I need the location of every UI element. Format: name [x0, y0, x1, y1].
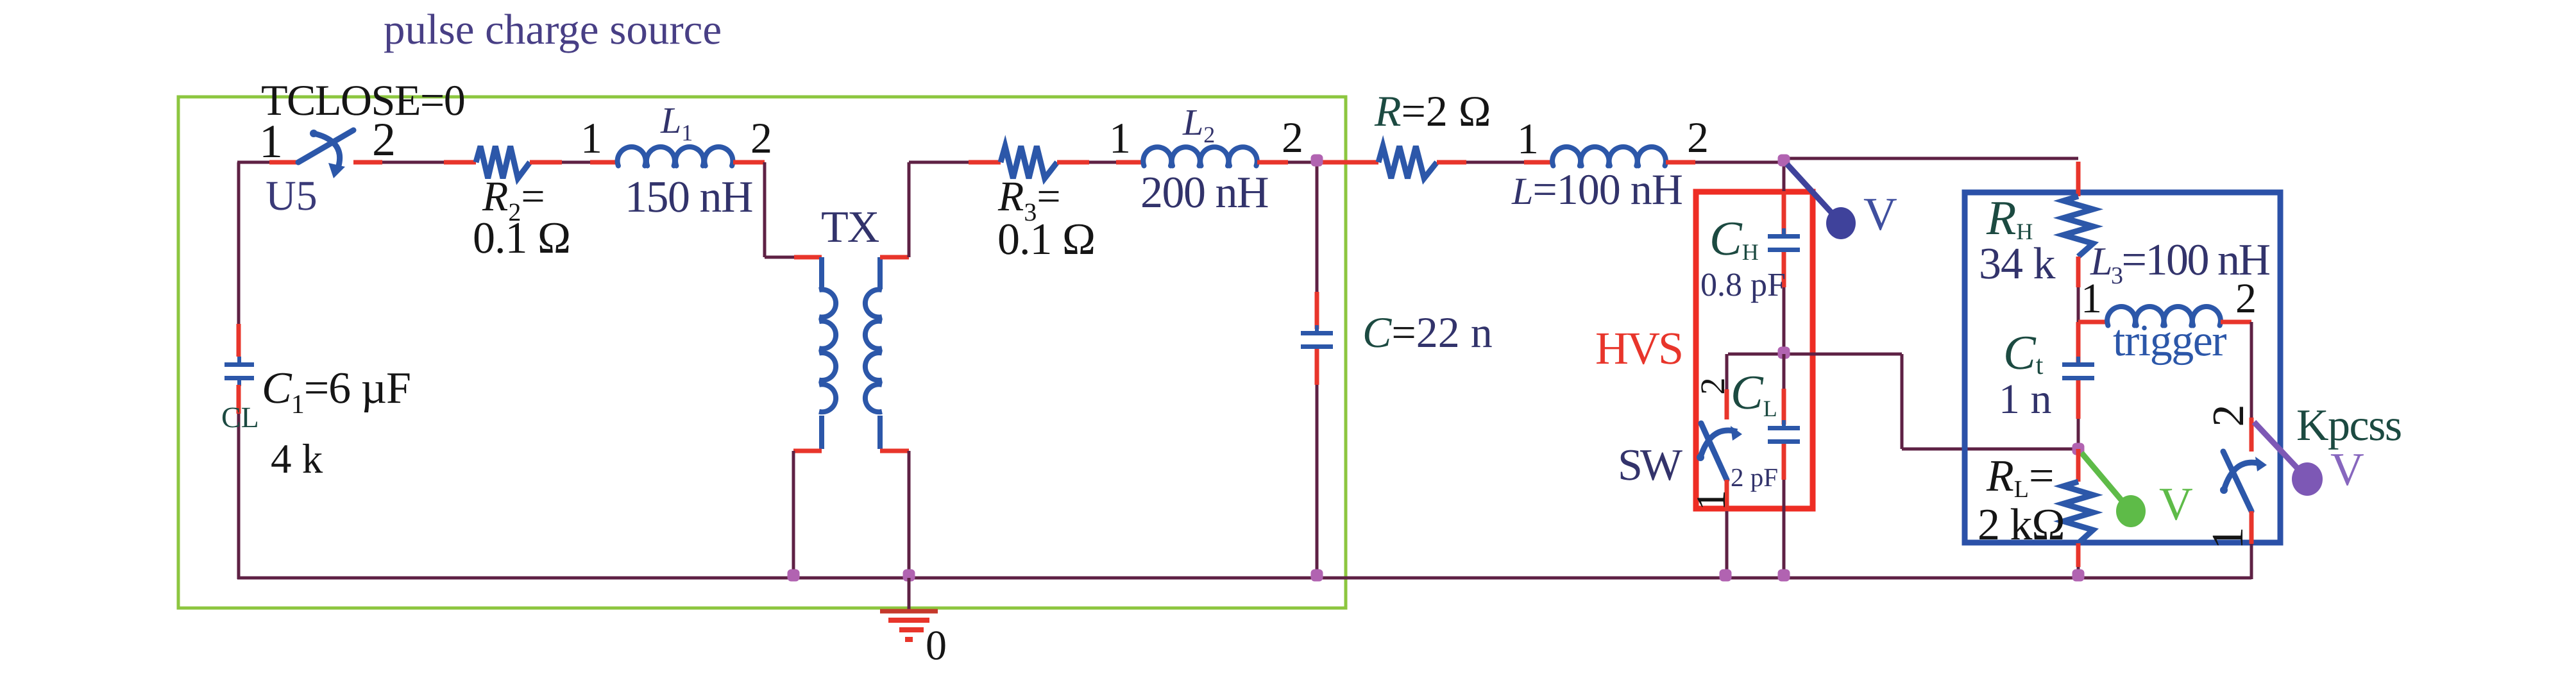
svg-text:2 pF: 2 pF [1731, 462, 1778, 492]
resistor R3 pin 2 wire [1057, 160, 1089, 165]
svg-text:0.1 Ω: 0.1 Ω [473, 214, 570, 263]
svg-text:1: 1 [580, 114, 602, 162]
wire [382, 161, 444, 164]
inductor L2 pin 2 wire [1257, 160, 1288, 165]
wire: L3 pin2 down to Kpcss switch [2250, 322, 2253, 418]
wire [2250, 544, 2253, 579]
svg-text:1: 1 [2203, 527, 2253, 550]
switch U5 pin 1 wire [269, 160, 298, 165]
inductor L2 pin 1 wire [1116, 160, 1143, 165]
switch U5 pin 2 wire [353, 160, 382, 165]
svg-text:2: 2 [1282, 113, 1303, 162]
wire [2076, 449, 2081, 482]
inductor L [1552, 147, 1580, 165]
junction node [903, 570, 915, 582]
wire [1725, 511, 1729, 578]
wire: bottom ground rail [237, 577, 2251, 580]
wire: Ct branch [2076, 322, 2081, 362]
svg-text:1: 1 [1688, 490, 1734, 511]
switch Kpcss pin 1 wire [2250, 511, 2254, 544]
capacitor Ct [2062, 362, 2094, 367]
capacitor CL [1768, 426, 1800, 430]
switch Kpcss actuation arrow [2220, 486, 2228, 494]
wire: SW branch [1725, 354, 1729, 389]
wire: node to RH branch rail [1784, 157, 2078, 160]
svg-text:V: V [1863, 188, 1897, 240]
pulse charge source boundary box [178, 97, 1346, 608]
wire: corner to TX primary [763, 162, 767, 257]
svg-text:L=100 nH: L=100 nH [1511, 165, 1682, 214]
inductor L2 [1143, 147, 1171, 165]
wire: CL/SW tie rail [1728, 353, 1902, 356]
wire: C branch vertical [1316, 162, 1319, 292]
resistor R2 pin 1 wire [444, 160, 476, 165]
voltage probe V (Kpcss node) [2254, 422, 2303, 475]
svg-text:2: 2 [1693, 378, 1732, 395]
svg-text:trigger: trigger [2113, 316, 2226, 366]
wire [1466, 161, 1524, 164]
capacitor C [1301, 331, 1333, 335]
inductor L3 pin 2 wire [2221, 320, 2251, 325]
svg-text:TX: TX [821, 203, 879, 252]
switch SW actuation arrow [1697, 453, 1704, 461]
junction node [1778, 570, 1790, 582]
wire crossing green box edge [1317, 160, 1378, 165]
voltage probe V (trigger node) [2081, 453, 2127, 507]
junction node [788, 570, 800, 582]
resistor R2 pin 2 wire [530, 160, 562, 165]
inductor L pin 1 wire [1524, 160, 1552, 165]
switch U5 actuation arrow [310, 130, 318, 137]
transformer TX secondary coil [877, 257, 883, 289]
svg-text:2: 2 [750, 114, 772, 162]
wire: TX secondary up to R3 rail [908, 162, 911, 257]
svg-text:TCLOSE=0: TCLOSE=0 [261, 76, 464, 124]
svg-text:pulse charge source: pulse charge source [384, 6, 722, 53]
switch U5 blade [298, 130, 353, 162]
svg-text:0.1 Ω: 0.1 Ω [997, 215, 1095, 264]
resistor R pin 2 wire [1437, 160, 1466, 165]
svg-text:34 k: 34 k [1979, 239, 2056, 289]
switch Kpcss blade [2223, 452, 2251, 511]
svg-text:SW: SW [1618, 441, 1682, 490]
inductor L pin 2 wire [1666, 160, 1695, 165]
svg-text:1: 1 [1109, 114, 1131, 162]
resistor R3 [1001, 146, 1057, 178]
svg-text:2: 2 [2204, 405, 2253, 427]
junction node (Ct/RL/V probe) [2072, 443, 2085, 455]
wire: CH branch [1783, 158, 1786, 191]
wire: left branch [237, 162, 241, 324]
svg-text:2: 2 [1687, 113, 1709, 162]
svg-text:4 k: 4 k [271, 436, 323, 482]
svg-text:2 kΩ: 2 kΩ [1978, 500, 2065, 550]
svg-text:0.8 pF: 0.8 pF [1700, 267, 1786, 303]
svg-text:1: 1 [1517, 114, 1539, 163]
ground 0 symbol [880, 609, 938, 614]
junction node [2072, 570, 2085, 582]
switch SW blade [1701, 423, 1727, 480]
wire [562, 161, 590, 164]
svg-text:0: 0 [926, 622, 947, 669]
resistor RL [2063, 482, 2093, 543]
wire [1901, 354, 1904, 449]
inductor L1 pin 2 wire [733, 160, 765, 165]
inductor L1 pin 1 wire [590, 160, 617, 165]
svg-text:150 nH: 150 nH [625, 173, 752, 222]
junction node [1311, 570, 1323, 582]
junction node (L2/R/C) [1311, 155, 1323, 167]
switch Kpcss pin 2 wire [2250, 418, 2254, 452]
junction node (CH/CL) [1778, 347, 1790, 359]
inductor L3 [2107, 307, 2135, 325]
svg-text:V: V [2330, 443, 2364, 495]
svg-text:1 n: 1 n [1999, 376, 2052, 423]
wire: TX primary bottom to ground rail [792, 451, 795, 578]
voltage probe V (charge node) [1787, 164, 1837, 219]
inductor L3 pin 1 wire [2078, 320, 2107, 325]
wire [1695, 161, 1784, 164]
capacitor C1 [225, 362, 254, 367]
switch SW pin 1 wire [1725, 480, 1729, 511]
TX primary bottom pin wire [793, 449, 822, 453]
wire: TX secondary bottom to ground rail [908, 451, 911, 579]
resistor RH [2063, 196, 2093, 257]
svg-text:C1​=6 µF: C1​=6 µF [262, 364, 411, 419]
wire: top rail down to RH [2076, 162, 2081, 196]
svg-text:C=22 n: C=22 n [1362, 308, 1493, 357]
wire: ground stem [908, 578, 911, 610]
HVS enclosure box [1696, 192, 1813, 509]
resistor R3 pin 1 wire [969, 160, 1001, 165]
svg-text:V: V [2159, 478, 2193, 530]
trigger enclosure box [1965, 192, 2280, 543]
junction node (top rail / V probe) [1778, 155, 1790, 167]
TX secondary bottom pin wire [880, 449, 909, 453]
transformer TX primary coil [819, 257, 824, 289]
TX primary top pin wire [794, 255, 822, 260]
resistor R [1378, 146, 1437, 178]
inductor L1 [618, 147, 646, 165]
wire: top-left corner [237, 161, 269, 164]
svg-text:CL: CL [221, 401, 259, 434]
svg-text:HVS: HVS [1595, 323, 1682, 374]
svg-text:2: 2 [372, 114, 396, 166]
TX secondary top pin wire [880, 255, 909, 260]
capacitor CH [1768, 234, 1800, 239]
svg-text:U5: U5 [266, 173, 318, 219]
switch SW pin 2 wire [1725, 389, 1729, 419]
junction node [1720, 570, 1732, 582]
wire [1089, 161, 1116, 164]
wire [1288, 161, 1317, 164]
svg-text:R=2 Ω: R=2 Ω [1374, 87, 1491, 135]
resistor R2 [476, 146, 530, 178]
wire [909, 161, 969, 164]
svg-text:200 nH: 200 nH [1140, 168, 1268, 217]
svg-text:1: 1 [259, 115, 283, 168]
